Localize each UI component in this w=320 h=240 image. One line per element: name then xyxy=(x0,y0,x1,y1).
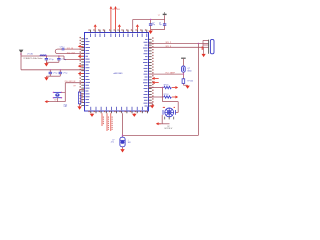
wire motor top jog xyxy=(163,102,179,113)
svg-text:P0.0_KEY_IN: P0.0_KEY_IN xyxy=(65,81,76,83)
svg-text:XC1_IN: XC1_IN xyxy=(67,48,74,50)
svg-text:L? 6.8n: L? 6.8n xyxy=(27,54,33,56)
resistor R2 ref label xyxy=(74,86,76,88)
wire speaker 1 xyxy=(149,42,204,44)
speaker LS1 pins xyxy=(203,40,209,47)
net arrow left pin 46 xyxy=(78,45,84,48)
junction row1 c2 xyxy=(58,55,59,56)
wire last right pin hook xyxy=(149,103,153,105)
svg-text:P0.7_BEEP: P0.7_BEEP xyxy=(166,73,176,75)
wire R6 row xyxy=(149,96,164,98)
net label button xyxy=(65,81,76,83)
wire ant row1 jog xyxy=(64,56,85,60)
wire crystal gnd rail xyxy=(151,29,165,31)
wire speaker 2 xyxy=(149,46,204,48)
svg-text:VDD: VDD xyxy=(116,9,120,11)
wire loop uturn xyxy=(55,49,57,54)
capacitor C5 label xyxy=(152,22,155,26)
net label loop top xyxy=(67,48,74,50)
wire R2 gnd xyxy=(79,104,81,106)
wire long branch down xyxy=(197,44,199,136)
button S1 label xyxy=(54,100,56,102)
IC U1 left pin numbers xyxy=(80,37,81,105)
wire loop top xyxy=(64,48,85,50)
junction beep xyxy=(183,73,184,74)
svg-text:MOTOR 3V: MOTOR 3V xyxy=(165,128,173,130)
svg-text:C? 1p: C? 1p xyxy=(49,59,54,61)
junction cap motor xyxy=(122,135,123,136)
inductor L1 label xyxy=(27,54,33,56)
power VDD tall port 2 xyxy=(114,6,117,30)
wire motor lower xyxy=(158,115,169,124)
resistor R2 xyxy=(78,92,80,104)
net stub 1 xyxy=(102,113,103,126)
transistor Q1 label xyxy=(188,68,192,73)
svg-text:C? 1u: C? 1u xyxy=(60,46,65,48)
wire R5 row xyxy=(149,87,164,89)
resistor R2 label xyxy=(81,93,83,103)
net stub 3 xyxy=(111,113,112,131)
svg-text:15p: 15p xyxy=(159,24,162,26)
ground speaker xyxy=(202,54,206,58)
svg-text:Y?: Y? xyxy=(158,15,160,17)
junction antenna xyxy=(20,53,22,55)
junction row1 c1 xyxy=(46,55,47,56)
ground Q1 xyxy=(185,85,189,89)
svg-text:P0.3: P0.3 xyxy=(64,104,67,106)
capacitor C6 xyxy=(163,20,166,30)
net arrow left pin 73 xyxy=(78,72,84,75)
button S1 xyxy=(53,92,63,99)
net arrow motor xyxy=(156,122,161,125)
wire loop bottom xyxy=(58,53,85,55)
power VDD tall port 1 label xyxy=(112,9,116,11)
svg-text:C? 1p: C? 1p xyxy=(61,59,66,61)
IC U1 bottom pin names xyxy=(91,107,148,110)
svg-text:C? 1p: C? 1p xyxy=(63,73,68,75)
svg-text:PCB ANT 2.4GHz 50ohm: PCB ANT 2.4GHz 50ohm xyxy=(24,57,44,60)
capacitor C1 label xyxy=(49,59,54,61)
IC U1 part name xyxy=(113,73,123,75)
IC U1 right pin names xyxy=(143,39,148,106)
power VCC arrow pin11 xyxy=(136,24,139,29)
net label SPK2 xyxy=(166,46,172,48)
net label loop bottom xyxy=(67,52,76,54)
svg-text:4.7u: 4.7u xyxy=(111,142,114,144)
capacitor C8 xyxy=(58,48,64,51)
crystal Y1 xyxy=(163,12,167,19)
wire antenna stem xyxy=(20,52,22,56)
capacitor C7 label left xyxy=(111,139,115,143)
svg-text:R?: R? xyxy=(74,86,76,88)
wire gnd bus1 xyxy=(46,61,59,63)
net arrow button xyxy=(45,100,49,103)
IC U1 bottom pin numbers xyxy=(88,111,146,112)
resistor R4 label xyxy=(188,81,194,83)
capacitor C2 label xyxy=(61,59,66,61)
svg-text:C?: C? xyxy=(152,22,154,24)
capacitor C1 xyxy=(45,56,48,62)
wire cap drop xyxy=(122,113,124,137)
net stub 2 xyxy=(107,113,108,131)
IC U1 right pin numbers xyxy=(152,37,153,105)
wire R4 gnd jog xyxy=(183,84,187,86)
net arrow right pin 83 xyxy=(152,81,159,84)
power bar Q1 xyxy=(181,58,186,66)
capacitor C3 xyxy=(49,70,52,76)
capacitor C7 xyxy=(120,137,125,147)
wire button up xyxy=(64,83,66,102)
antenna ANT1 xyxy=(19,50,24,53)
resistor R5 xyxy=(164,86,172,88)
svg-text:R? 100: R? 100 xyxy=(188,81,194,83)
wire button bar link xyxy=(62,91,66,93)
svg-text:KEY: KEY xyxy=(64,106,68,108)
IC U1 body xyxy=(85,33,149,112)
net arrow R6 xyxy=(172,96,178,99)
capacitor C8 label xyxy=(60,46,65,48)
motor M1 legs xyxy=(165,117,174,120)
junction row2 c4 xyxy=(60,69,61,70)
capacitor C5 xyxy=(149,20,152,30)
motor M1 label xyxy=(165,126,173,130)
wire button bottom xyxy=(48,98,66,102)
wire button to pin xyxy=(65,82,84,84)
resistor R6 xyxy=(164,96,172,98)
inductor L1 xyxy=(40,55,46,56)
svg-text:C?: C? xyxy=(159,22,161,24)
ground C7 xyxy=(120,149,124,153)
IC U1 top pin numbers xyxy=(89,29,147,30)
net arrow left pin 66 xyxy=(78,65,84,68)
junction row2 c3 xyxy=(50,69,51,70)
ground bus1 xyxy=(44,62,48,66)
wire ant row2 xyxy=(21,69,85,71)
net label SPK1 xyxy=(166,42,172,44)
resistor R4 xyxy=(182,79,185,85)
wire XTAL rail xyxy=(133,19,165,21)
capacitor C6 label xyxy=(159,22,162,26)
svg-text:R? 1K: R? 1K xyxy=(164,85,170,87)
wire gnd bus2 xyxy=(47,75,61,77)
wire beep drive xyxy=(149,73,184,75)
wire Q1 node xyxy=(182,72,184,79)
svg-text:SPK_P: SPK_P xyxy=(166,42,172,44)
capacitor C4 xyxy=(59,70,62,76)
resistor R5 label xyxy=(164,85,170,87)
junction R6 bus xyxy=(162,96,163,97)
wire ant row1 xyxy=(21,55,64,57)
capacitor C3 label xyxy=(53,73,58,75)
junction crystal rail xyxy=(150,19,151,20)
speaker LS1 pin numbers xyxy=(202,47,204,50)
svg-text:8050: 8050 xyxy=(188,70,192,72)
power VCC arrow pin2 xyxy=(94,24,97,29)
wire motor bottom return xyxy=(123,134,199,136)
IC U1 left pin names xyxy=(86,39,91,106)
net arrow R5 xyxy=(172,86,178,89)
svg-text:15p: 15p xyxy=(152,24,155,26)
transistor Q1 xyxy=(182,66,186,72)
power VCC arrow pin7 xyxy=(118,24,121,29)
IC U1 bottom pins xyxy=(91,111,148,113)
ground bottom right xyxy=(132,113,137,117)
svg-text:XC2_OUT: XC2_OUT xyxy=(67,52,76,54)
power VDD tall port 2 label xyxy=(116,9,120,11)
svg-text:R? 1K: R? 1K xyxy=(164,94,170,96)
ground bus2 xyxy=(44,76,48,80)
net label BEEP xyxy=(166,73,176,75)
resistor R6 label xyxy=(164,94,170,96)
capacitor C4 label xyxy=(63,73,68,75)
wire antenna drop xyxy=(20,56,22,70)
capacitor C7 label right xyxy=(128,139,132,143)
svg-text:SPK_N: SPK_N xyxy=(166,46,172,48)
wire R2 bend xyxy=(80,90,85,93)
motor M1 xyxy=(163,108,175,117)
crystal Y1 label xyxy=(158,15,160,17)
net arrow left pin 56 xyxy=(78,55,84,58)
svg-text:nRF24E1: nRF24E1 xyxy=(113,73,123,75)
IC U1 top pin names xyxy=(90,34,146,38)
svg-text:M?: M? xyxy=(168,126,170,128)
wire speaker gnd xyxy=(203,47,205,53)
power VDD tall port 1 xyxy=(110,6,113,30)
svg-text:16V: 16V xyxy=(128,142,132,144)
motor M1 plus mark xyxy=(163,106,175,109)
ground right bottom xyxy=(150,105,154,109)
junction R5 bus xyxy=(162,87,163,88)
IC U1 left pins xyxy=(81,39,84,106)
capacitor C2 xyxy=(57,56,60,62)
svg-text:C? 1p: C? 1p xyxy=(53,73,58,75)
IC U1 right pins xyxy=(149,39,152,106)
ground crystal xyxy=(148,30,152,34)
net arrow right pin 78 xyxy=(152,77,159,80)
junction speaker branch xyxy=(198,43,199,44)
ground bottom left xyxy=(90,113,95,117)
IC U1 top pins xyxy=(90,30,146,33)
wire motor bus xyxy=(162,88,164,102)
antenna note xyxy=(24,57,44,60)
speaker LS1 xyxy=(209,39,214,53)
ground R2 xyxy=(77,106,81,110)
motor M1 inner detail xyxy=(165,108,174,117)
wire XTAL pin up xyxy=(132,20,134,30)
wire cap gnd xyxy=(122,147,124,149)
button aux label xyxy=(64,104,68,108)
